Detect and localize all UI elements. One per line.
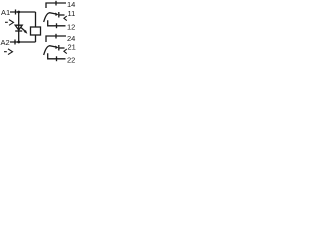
wire contact1 NC terminal 12 — [48, 20, 66, 26]
svg-text:A1: A1 — [1, 8, 10, 17]
wire contact2 common terminal 21 — [59, 47, 65, 49]
wire contact2 NO terminal 24 — [46, 36, 66, 42]
terminal tick on 21 line — [58, 45, 60, 51]
relay coil K1 — [31, 27, 41, 35]
terminal tick on 14 line — [55, 1, 57, 6]
node junction dot on A1 wire — [17, 11, 20, 14]
svg-text:A2: A2 — [1, 38, 10, 47]
arrow toward coil — [21, 27, 25, 31]
wire contact1 common terminal 11 — [59, 14, 65, 16]
wire coil branch bottom — [35, 35, 37, 42]
terminal tick on 24 line — [55, 34, 57, 39]
plug chevron at terminal 21 — [64, 49, 67, 54]
wire vertical diode branch — [18, 12, 20, 42]
wire contact1 NO terminal 14 — [46, 3, 66, 8]
terminal tick on A2 wire — [14, 40, 16, 45]
svg-text:21: 21 — [68, 42, 76, 51]
wire contact2 NC terminal 22 — [48, 53, 66, 59]
wire coil branch top — [35, 12, 37, 27]
contact 2 movable arm — [44, 46, 56, 55]
plug chevron at terminal 11 — [64, 16, 67, 21]
arrow marker at A1 input — [5, 21, 8, 23]
svg-text:22: 22 — [67, 55, 75, 64]
contact 1 movable arm — [44, 13, 56, 22]
wire A2 horizontal — [10, 41, 36, 43]
terminal tick on 11 line — [58, 12, 60, 18]
terminal tick on 22 line — [56, 56, 58, 61]
diode D1 (cathode down) — [15, 25, 22, 30]
wire A1 horizontal — [10, 11, 36, 13]
terminal tick on 12 line — [56, 23, 58, 28]
node junction dot on A2 wire — [17, 41, 20, 44]
svg-text:12: 12 — [67, 22, 75, 31]
svg-text:11: 11 — [68, 9, 76, 18]
svg-text:14: 14 — [67, 0, 75, 9]
arrow marker at A2 input — [4, 51, 7, 53]
terminal tick on A1 wire — [15, 10, 17, 15]
